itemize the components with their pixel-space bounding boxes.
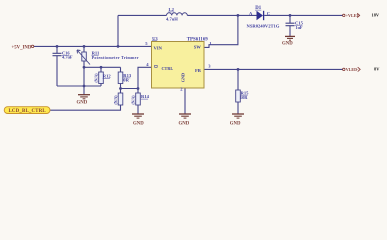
node junction dots (56, 14, 292, 90)
resistor R15 (236, 90, 241, 102)
wire connector R13 node to R14 node (121, 88, 139, 90)
resistor lower series to LCD_BL_CTRL (118, 93, 123, 105)
svg-text:CTRL: CTRL (162, 66, 174, 71)
wire FB to VLED- port (204, 68, 343, 70)
svg-text:VLED-: VLED- (346, 67, 359, 72)
IC U3 TPS61169 body (152, 42, 205, 89)
node C16 top (56, 45, 59, 48)
capacitor C16 (53, 53, 62, 55)
svg-text:R14: R14 (141, 94, 150, 99)
wire top rail right segment (264, 14, 342, 16)
resistor R14 (136, 93, 141, 105)
node R13 bottom junction (119, 87, 122, 90)
wire C16 bottom rail (57, 85, 101, 87)
wire pot ground drop (83, 86, 85, 95)
wire CTRL pin (138, 67, 152, 93)
svg-text:GND: GND (282, 41, 293, 46)
wire pot vertical (83, 46, 85, 86)
node R12 top junction (100, 66, 103, 69)
svg-text:L2: L2 (169, 7, 175, 12)
wire R14 to ground (137, 105, 139, 114)
capacitor C16 labels (62, 51, 73, 60)
node C16 bottom gnd junction (83, 85, 86, 88)
node R14 top junction (137, 87, 140, 90)
pin CTRL input mark (155, 65, 158, 67)
wire C16 vertical bottom (56, 56, 58, 86)
svg-text:C: C (267, 11, 270, 16)
node pot wiper junction (83, 66, 86, 69)
svg-text:NSR0240V2T1G: NSR0240V2T1G (247, 23, 280, 28)
svg-text:(N/A): (N/A) (114, 95, 118, 105)
wire FB node down to R15 (237, 69, 239, 90)
inductor L2 labels (166, 7, 178, 21)
svg-text:SW: SW (194, 45, 202, 50)
inductor L2 (167, 13, 188, 16)
ground under R15 (232, 114, 244, 118)
resistor R12 (99, 72, 104, 84)
resistor R13 (118, 72, 123, 84)
ground under C15 (285, 36, 295, 40)
wire C15 drop (289, 15, 291, 23)
node FB junction (237, 68, 240, 71)
wire C15 to ground (289, 26, 291, 36)
potentiometer R11 (77, 50, 90, 65)
node pot top (83, 45, 86, 48)
port +5V_IND (12, 45, 34, 50)
wire IC GND pin to ground (184, 88, 186, 114)
svg-text:(N/A): (N/A) (132, 95, 136, 105)
port VLED- (343, 67, 361, 72)
ground under IC pin 2 (179, 114, 191, 118)
svg-text:TPS61169: TPS61169 (187, 38, 208, 43)
port +VLED (343, 13, 360, 18)
node SW-diode junction (237, 14, 240, 17)
svg-text:LCD_BL_CTRL: LCD_BL_CTRL (8, 109, 45, 114)
svg-text:10R: 10R (240, 95, 248, 100)
svg-text:GND: GND (77, 100, 88, 105)
wire LCD_BL_CTRL to lower resistor (50, 105, 121, 110)
wire top rail left segment (118, 14, 167, 16)
wire R15 to ground (237, 102, 239, 114)
wire SW pin jog to top node (204, 15, 238, 47)
wire R13 chain vertical (120, 67, 122, 93)
svg-text:0R: 0R (123, 78, 129, 83)
svg-text:18V: 18V (372, 13, 380, 18)
diode D1 labels (247, 6, 280, 28)
svg-text:VIN: VIN (154, 45, 163, 50)
ground under R14 (132, 114, 144, 118)
svg-text:1uF: 1uF (296, 25, 303, 30)
wire top rail mid segment (187, 14, 256, 16)
net label LCD_BL_CTRL (4, 107, 50, 114)
wire VIN rail (34, 45, 152, 47)
svg-text:FB: FB (195, 68, 201, 73)
svg-text:R12: R12 (103, 73, 112, 78)
node C15 junction (289, 14, 292, 17)
svg-text:D1: D1 (255, 6, 261, 11)
capacitor C15 labels (295, 20, 304, 30)
svg-text:Potentiometer Trimmer: Potentiometer Trimmer (92, 55, 139, 60)
wire vertical from VIN rail up to inductor (117, 15, 119, 46)
svg-text:(N/A): (N/A) (95, 73, 99, 83)
ground under potentiometer (78, 95, 90, 99)
svg-text:8V: 8V (374, 67, 380, 72)
svg-text:GND: GND (179, 121, 190, 126)
svg-text:U3: U3 (152, 36, 158, 41)
svg-text:+5V_IND: +5V_IND (12, 45, 32, 50)
svg-text:GND: GND (230, 121, 241, 126)
wire pot wiper to R12 R13 tops (84, 66, 121, 68)
svg-text:4.7uH: 4.7uH (166, 16, 178, 21)
svg-text:GND: GND (133, 121, 144, 126)
wire R12 vertical (100, 67, 102, 86)
svg-text:GND: GND (181, 73, 186, 82)
capacitor C15 (286, 23, 295, 26)
svg-text:4.7uF: 4.7uF (62, 55, 73, 60)
wire C16 vertical top (56, 46, 58, 53)
node inductor-rail junction (117, 45, 120, 48)
potentiometer R11 labels (91, 50, 138, 60)
diode D1 (257, 11, 264, 20)
